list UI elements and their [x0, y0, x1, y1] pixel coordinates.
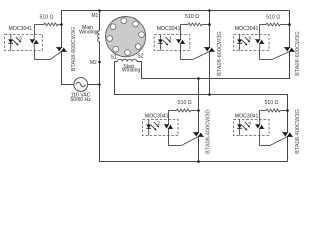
- node resistor R3 junction: [288, 23, 291, 26]
- gate wire Q4: [260, 136, 288, 146]
- node M2 terminal: [98, 61, 101, 64]
- triac Q5 BTA08-600CW3G (left): [56, 48, 67, 52]
- svg-text:50/60 Hz: 50/60 Hz: [70, 97, 91, 103]
- triac Q4 BTA08-400CW3G (bottom B): [282, 133, 293, 137]
- triac Q3 BTA08-600CW3G (top B): [284, 48, 295, 52]
- svg-text:MOC3041: MOC3041: [9, 26, 33, 32]
- label Main Winding: [79, 25, 98, 35]
- gate wire Q1: [181, 51, 210, 60]
- wire start winding S1 drop and S1 line: [115, 62, 288, 133]
- node resistor R1 junction: [208, 23, 211, 26]
- resistor R2 510ohm (bottom A): [169, 109, 199, 119]
- svg-text:BTA08-600CW3G: BTA08-600CW3G: [71, 27, 77, 72]
- svg-text:4: 4: [248, 120, 251, 126]
- svg-text:M2: M2: [90, 60, 97, 66]
- wire AC source to node M2 column: [88, 84, 100, 86]
- wire triac Q1 vertical (bus to S1): [209, 11, 211, 48]
- node bottom bus / Q2 junction: [197, 160, 200, 163]
- gate wire Q3: [260, 51, 290, 60]
- optocoupler U1 (MOC3041): [154, 35, 190, 51]
- svg-text:BTA08-600CW3G: BTA08-600CW3G: [295, 31, 301, 76]
- svg-text:5: 5: [19, 35, 22, 41]
- svg-text:510 Ω: 510 Ω: [265, 100, 279, 106]
- svg-text:Winding: Winding: [79, 30, 98, 36]
- svg-text:M1: M1: [91, 13, 98, 19]
- label 110 VAC 50/60 Hz: [70, 93, 91, 103]
- resistor R1 510ohm (top A): [181, 23, 210, 34]
- svg-text:S2: S2: [138, 53, 144, 59]
- triac Q2 BTA08-400CW3G (bottom A): [193, 133, 204, 137]
- node S1 / Q1 junction: [208, 93, 211, 96]
- resistor R3 510ohm (top B): [260, 23, 290, 34]
- inductor start winding: [118, 59, 138, 61]
- AC source 110 VAC: [74, 78, 88, 92]
- svg-text:MOC3041: MOC3041: [145, 113, 169, 119]
- svg-text:BTA08-600CW3G: BTA08-600CW3G: [217, 31, 223, 76]
- svg-text:BTA08-400CW3G: BTA08-400CW3G: [206, 109, 212, 154]
- svg-text:510 Ω: 510 Ω: [185, 14, 199, 20]
- node M1 junction: [98, 9, 101, 12]
- svg-text:2: 2: [157, 120, 160, 126]
- wire triac Q3 vertical (bus corner down): [289, 11, 291, 48]
- wire left triac to AC source: [62, 52, 74, 85]
- svg-text:MOC3041: MOC3041: [235, 26, 259, 32]
- optocoupler U4 (MOC3041): [233, 120, 269, 136]
- optocoupler U2 (MOC3041): [143, 120, 179, 136]
- resistor R4 510ohm (bottom B): [260, 109, 288, 119]
- svg-text:3: 3: [248, 35, 251, 41]
- gate wire Q2: [169, 136, 199, 146]
- wire triac Q2 vertical (S2 to bottom bus): [198, 79, 200, 133]
- svg-text:Winding: Winding: [122, 68, 141, 74]
- svg-text:1: 1: [169, 35, 172, 41]
- svg-text:BTA08-400CW3G: BTA08-400CW3G: [295, 109, 301, 154]
- wire main winding to bottom bus corner: [100, 42, 288, 162]
- motor rotor (circle with 8 winding slots): [106, 16, 146, 56]
- wire main column M1 down to main winding: [99, 11, 101, 31]
- node resistor R2 junction: [197, 109, 200, 112]
- gate wire Q5: [35, 51, 62, 60]
- node resistor R5 junction: [60, 23, 63, 26]
- node S2 / Q2 junction: [197, 77, 200, 80]
- svg-text:S1: S1: [110, 54, 116, 60]
- node AC source junction: [98, 83, 101, 86]
- wire start winding horizontal runs: [115, 61, 118, 63]
- optocoupler U3 (MOC3041): [233, 35, 269, 51]
- triac Q1 BTA08-600CW3G (top A): [204, 48, 215, 52]
- svg-text:510 Ω: 510 Ω: [266, 15, 280, 21]
- svg-text:510 Ω: 510 Ω: [40, 15, 54, 21]
- label Start Winding: [122, 64, 141, 74]
- inductor main winding: [98, 31, 100, 42]
- svg-text:MOC3041: MOC3041: [235, 113, 259, 119]
- wire triac Q4 vertical: [287, 137, 289, 162]
- resistor R5 510ohm (left): [35, 23, 62, 34]
- node resistor R4 junction: [286, 109, 289, 112]
- node top bus / Q1 junction: [208, 9, 211, 12]
- wire left vertical: bus to triac Q5: [61, 11, 63, 48]
- optocoupler U5 (MOC3041): [5, 35, 43, 51]
- wire start winding S2 drop and S2 line: [142, 52, 290, 79]
- wire top bus (Line A): [62, 10, 290, 12]
- svg-text:510 Ω: 510 Ω: [178, 100, 192, 106]
- svg-text:MOC3041: MOC3041: [157, 26, 181, 32]
